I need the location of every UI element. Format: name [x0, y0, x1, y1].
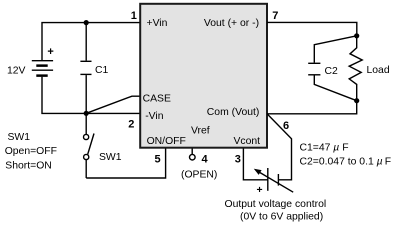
- svg-text:C1: C1: [95, 65, 109, 76]
- svg-text:5: 5: [155, 154, 161, 166]
- wire pin 3 Vcont to control +: [243, 149, 267, 180]
- svg-text:CASE: CASE: [143, 94, 171, 105]
- svg-text:2: 2: [128, 118, 134, 130]
- svg-text:Load: Load: [367, 65, 390, 76]
- node dot top (C1/+Vin junction): [84, 20, 89, 25]
- wire load bottom to Com pin: [267, 101, 357, 114]
- wire switch to pin 5 ON/OFF: [86, 149, 165, 179]
- svg-text:3: 3: [235, 154, 241, 166]
- svg-text:-Vin: -Vin: [145, 111, 164, 122]
- capacitor C1: [80, 23, 91, 114]
- wire pin 6 Com to control return: [268, 114, 292, 180]
- switch SW1: [84, 113, 95, 178]
- capacitor C2 bottom lead: [314, 76, 356, 101]
- svg-text:7: 7: [272, 10, 278, 22]
- svg-text:C2=0.047 to 0.1 µ F: C2=0.047 to 0.1 µ F: [300, 157, 392, 168]
- svg-text:Output voltage control: Output voltage control: [225, 199, 327, 210]
- node dot load top: [354, 33, 359, 38]
- svg-text:+: +: [257, 185, 263, 196]
- pin 4 open stub: [191, 149, 193, 155]
- svg-text:Vcont: Vcont: [234, 136, 261, 147]
- svg-text:Open=OFF: Open=OFF: [5, 146, 57, 157]
- wire battery - lead to bottom rail: [42, 77, 140, 114]
- svg-text:C2: C2: [325, 66, 339, 77]
- svg-text:Short=ON: Short=ON: [5, 160, 52, 171]
- svg-text:(OPEN): (OPEN): [181, 170, 217, 181]
- svg-text:SW1: SW1: [99, 152, 122, 163]
- battery B1 12V plates: [32, 61, 53, 76]
- control source battery plates: [268, 168, 279, 191]
- resistor Load: [349, 36, 362, 101]
- control source variable arrow: [254, 169, 293, 193]
- capacitor C2 top lead: [314, 36, 356, 63]
- svg-text:6: 6: [283, 120, 289, 132]
- wire pin 7 to load top: [267, 22, 357, 34]
- node dot bottom (C1/-Vin junction): [84, 111, 89, 116]
- wire CASE to bottom rail: [87, 96, 140, 113]
- module U1 body: [140, 4, 267, 148]
- svg-text:Com (Vout): Com (Vout): [207, 107, 260, 118]
- svg-text:C1=47 µ F: C1=47 µ F: [300, 142, 349, 153]
- capacitor C2 plates: [308, 63, 320, 75]
- svg-text:1: 1: [131, 10, 137, 22]
- svg-text:4: 4: [202, 154, 209, 166]
- svg-text:Vref: Vref: [191, 126, 210, 137]
- svg-text:Vout (+ or -): Vout (+ or -): [204, 18, 259, 29]
- svg-text:+: +: [47, 46, 53, 58]
- svg-text:+Vin: +Vin: [147, 18, 168, 29]
- svg-text:SW1: SW1: [8, 132, 31, 143]
- wire top-left rail (battery + to pin 1): [42, 23, 140, 60]
- svg-text:ON/OFF: ON/OFF: [147, 136, 186, 147]
- svg-text:12V: 12V: [7, 66, 26, 77]
- pin 4 open-circle terminal: [190, 154, 196, 160]
- svg-text:(0V to 6V applied): (0V to 6V applied): [240, 211, 323, 222]
- node dot load bottom: [354, 98, 359, 103]
